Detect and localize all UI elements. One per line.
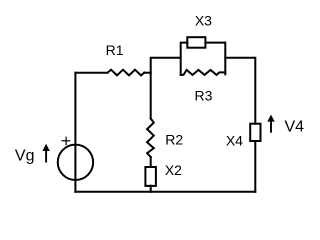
wire left bar of parallel block — [181, 43, 188, 75]
plus sign of Vg — [62, 137, 71, 146]
svg-text:X3: X3 — [195, 13, 212, 29]
wire X3 to right bar — [205, 43, 225, 75]
svg-text:V4: V4 — [285, 119, 305, 136]
arrow V4 — [267, 115, 274, 133]
svg-text:X4: X4 — [226, 132, 243, 148]
svg-text:Vg: Vg — [15, 148, 35, 165]
wire X2 to bottom rail — [150, 186, 152, 192]
svg-text:X2: X2 — [165, 162, 182, 178]
component X2 — [145, 167, 156, 186]
svg-text:R2: R2 — [165, 132, 183, 148]
voltage source Vg circle — [58, 145, 93, 180]
resistor R2 — [147, 118, 154, 157]
svg-text:R3: R3 — [195, 87, 213, 103]
resistor R1 — [108, 70, 145, 76]
arrow Vg — [42, 144, 49, 163]
wire R1 to node A — [144, 72, 150, 74]
wire left branch vertical — [74, 73, 76, 192]
wire X4 to bottom rail — [254, 141, 256, 192]
component X3 — [187, 37, 205, 48]
component X4 — [250, 124, 260, 141]
wire node A vertical to parallel feed — [151, 58, 181, 119]
wire right bar to right branch — [225, 58, 255, 124]
wire bottom rail — [75, 191, 255, 193]
wire R2 to X2 — [150, 157, 152, 167]
resistor R3 — [181, 70, 226, 75]
wire top-left horizontal — [75, 72, 107, 74]
svg-text:R1: R1 — [106, 42, 124, 58]
